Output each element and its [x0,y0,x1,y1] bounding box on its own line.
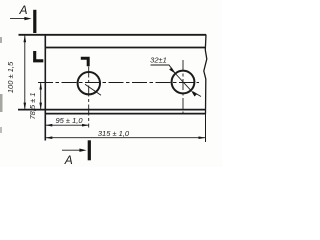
plate outer bottom edge [45,113,206,115]
vertical dimension line 100±1,5 [24,35,27,109]
section A top view arrow [10,17,32,20]
horizontal centerline through holes [38,82,199,84]
left hole vertical centerline [88,67,90,128]
horizontal dimension line 315±1,0 [45,136,205,139]
vertical dimension line 78,5±1 [39,83,42,110]
plate top edge [19,34,207,36]
svg-text:78,5 ± 1: 78,5 ± 1 [28,92,37,119]
section A-A cutting plane bottom thick bar [88,140,91,160]
right edge extension line [205,114,207,142]
scan smudges at left border [0,37,2,43]
section step corner mark (left, L-shape) [33,51,43,61]
right hole vertical centerline [182,60,184,114]
section A-A cutting plane top thick bar [33,10,36,33]
svg-text:315 ± 1,0: 315 ± 1,0 [98,129,130,138]
left hole [78,72,100,94]
hole diameter dimension 32±1 leader [151,65,202,97]
svg-text:32±1: 32±1 [150,56,167,65]
svg-text:95 ± 1,0: 95 ± 1,0 [55,116,83,125]
right hole [172,71,195,94]
plate right edge (break line) [204,35,207,114]
svg-text:100 ± 1,5: 100 ± 1,5 [6,61,15,93]
plate left edge [44,34,46,140]
plate inner top line [45,47,206,49]
horizontal dimension line 95±1,0 [45,124,89,127]
section A bottom view arrow [62,149,87,152]
svg-text:A: A [18,3,27,17]
plate inner bottom line [18,109,206,111]
svg-text:A: A [64,153,73,167]
left hole diagonal mark [85,84,101,95]
section step corner mark (right, inverted-L) [81,57,88,67]
